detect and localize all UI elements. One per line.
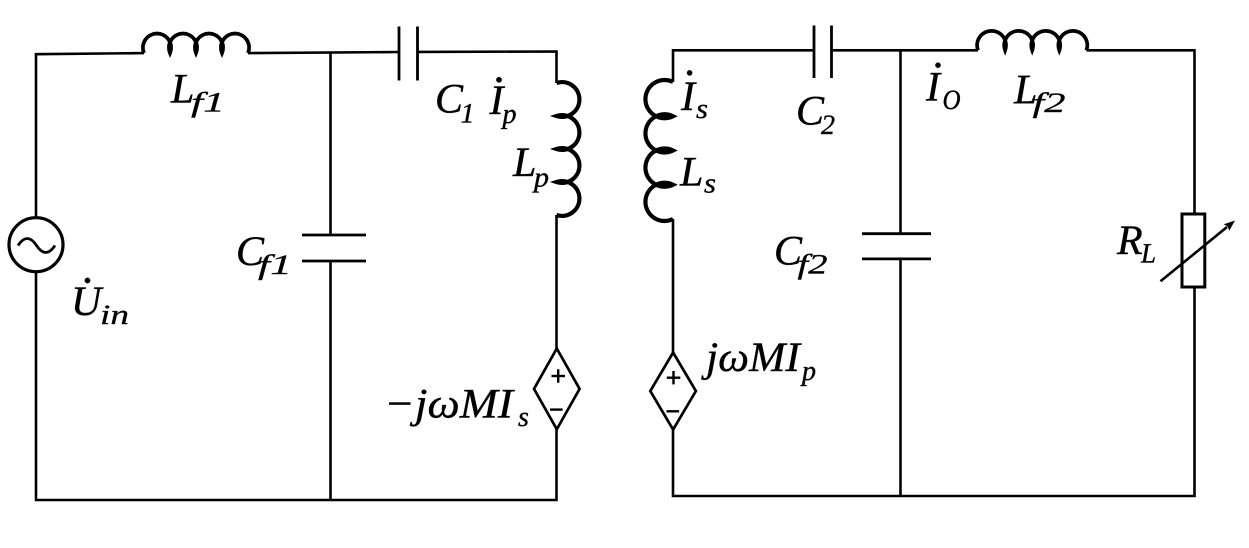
plus sign in right diamond xyxy=(667,371,681,384)
wire: diamond to bottom-left loop xyxy=(36,273,557,500)
capacitor C2 xyxy=(814,26,832,79)
label L_p xyxy=(513,149,549,193)
label L_f2 xyxy=(1014,76,1065,118)
wire: C1 to top-right corner, down to L_p xyxy=(418,52,557,84)
label C_f1 xyxy=(238,237,287,280)
wire: C_f1 to bottom wire xyxy=(329,261,332,500)
wire: R_L up to top-right corner and to L_f2 xyxy=(1087,50,1195,212)
label I_O with dot xyxy=(926,63,960,110)
wire: L_s to right dependent source xyxy=(672,219,675,353)
label R_L xyxy=(1117,227,1155,263)
label C_f2 xyxy=(776,237,826,280)
capacitor C_f1 xyxy=(302,235,366,261)
label C_1 xyxy=(437,85,471,123)
wire: middle branch down to C_f1 xyxy=(329,52,332,235)
wire: L_f1 to C1 left plate xyxy=(248,52,399,53)
dependent source -jwMIs diamond xyxy=(534,349,580,430)
label C_2 xyxy=(798,97,834,134)
inductor L_s xyxy=(645,80,673,221)
inductor L_f2 xyxy=(977,31,1087,50)
label jwMI_p xyxy=(701,343,815,386)
wire: right middle branch down to C_f2 xyxy=(899,50,902,233)
inductor L_p xyxy=(557,82,580,216)
wire: right diamond to bottom wire of right circuit xyxy=(673,289,1195,497)
wire: C_f2 to bottom wire xyxy=(899,259,902,496)
minus sign in left diamond xyxy=(550,408,563,410)
label L_s xyxy=(680,158,716,193)
label I_s with dot xyxy=(681,70,707,118)
capacitor C_f2 xyxy=(862,234,931,259)
arrow through R_L xyxy=(1161,227,1228,281)
wire: right circuit top-left down to L_s xyxy=(673,50,814,82)
label I_p with dot xyxy=(489,77,515,129)
minus sign in right diamond xyxy=(667,410,680,412)
capacitor C1 xyxy=(399,27,418,81)
plus sign in left diamond xyxy=(552,369,566,382)
label -jwMI_s xyxy=(389,390,528,427)
AC source sine wave xyxy=(18,239,55,253)
AC source U_in circle xyxy=(9,218,63,272)
wire: L_p to dependent source xyxy=(555,215,558,349)
label U_in with dot xyxy=(75,278,128,324)
inductor L_f1 xyxy=(143,34,249,54)
wire: C2 right plate to L_f2 xyxy=(832,49,979,52)
resistor R_L box xyxy=(1182,214,1205,287)
wire: left circuit top, source to L_f1 xyxy=(36,53,144,217)
dependent source jwMIp diamond xyxy=(650,353,696,430)
label L_f1 xyxy=(171,75,221,118)
